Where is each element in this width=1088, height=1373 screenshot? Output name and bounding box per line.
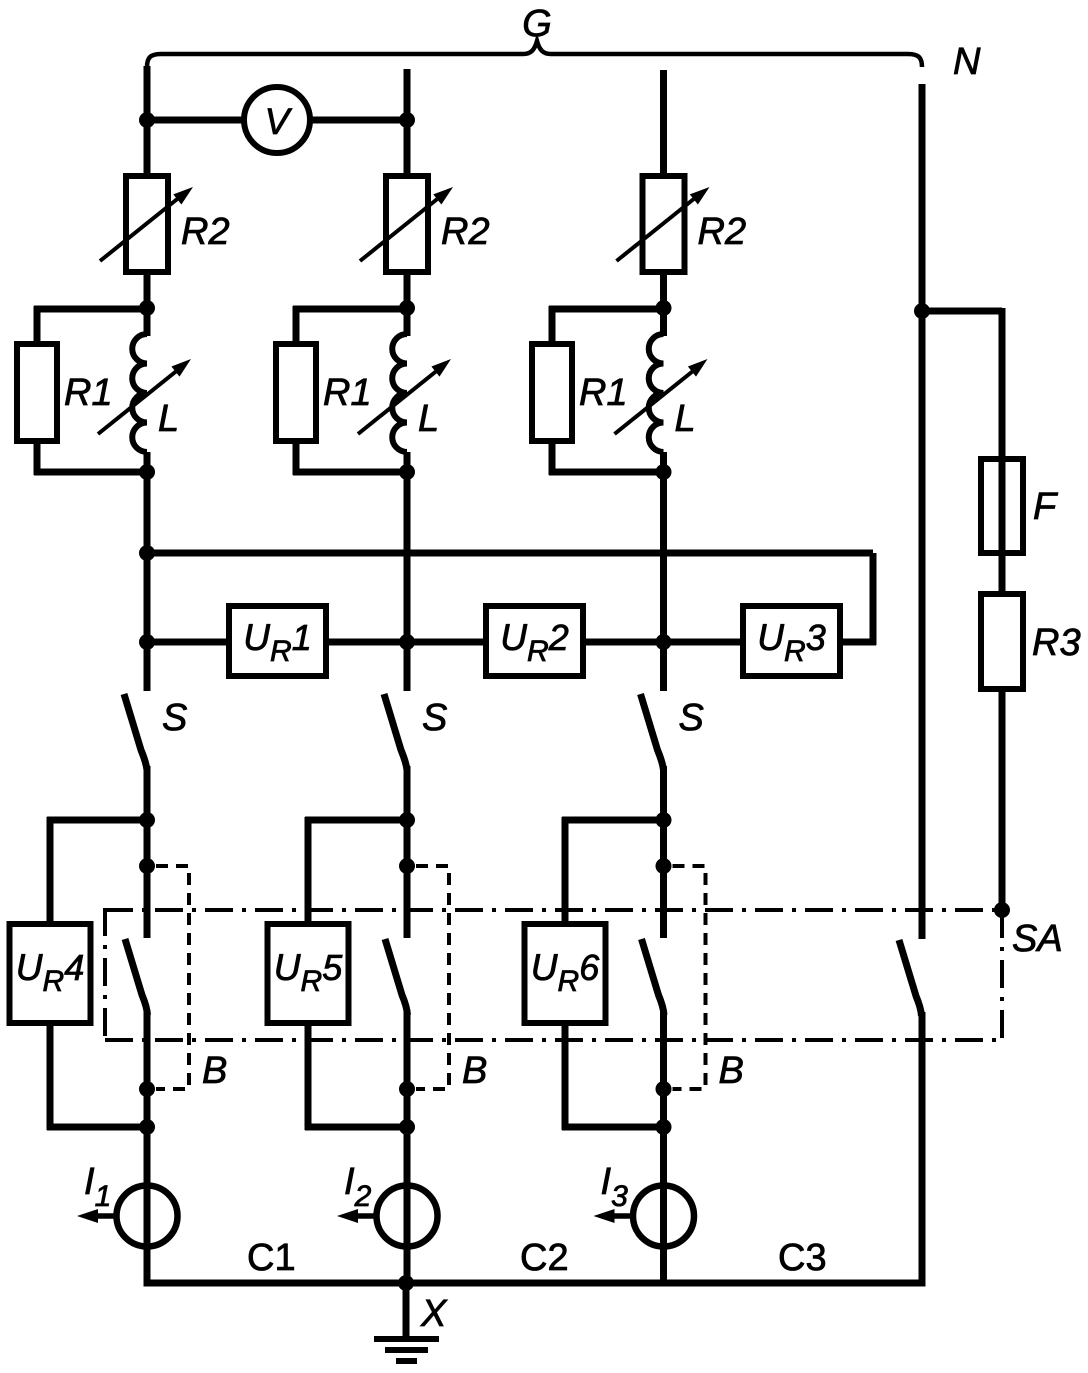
wire parallel top bar (phase B): [293, 306, 407, 313]
switch S (phase B): [384, 694, 407, 770]
wire R2 to coil (phase B): [404, 272, 411, 336]
dash-dot coupling SA right side: [1000, 910, 1004, 1042]
svg-text:F: F: [1033, 486, 1058, 528]
wire parallel bottom bar (phase A): [34, 469, 147, 476]
wire UR4 top lead (phase A): [47, 817, 54, 926]
dashed enclosure of breaker B (phase C): [673, 866, 706, 1089]
wire neutral to F: [922, 308, 1002, 596]
ground symbol at X: [374, 1283, 439, 1361]
label UR2: [500, 617, 568, 668]
wire parallel bottom bar (phase C): [549, 469, 664, 476]
resistor R3: [981, 594, 1023, 689]
node S bottom / UR4 top (phase A): [139, 812, 155, 828]
wire parallel top bar (phase C): [549, 306, 664, 313]
wire UR4 top bar (phase A): [47, 817, 147, 824]
node coil top (phase C): [656, 300, 672, 316]
wire S to B (phase C): [660, 766, 667, 938]
node R3 / SA frame: [994, 902, 1010, 918]
label N: [953, 41, 981, 83]
label L (phase C): [675, 398, 696, 440]
wire UR5 top bar (phase B): [305, 817, 407, 824]
arrow of variable resistor R2 (phase C): [617, 187, 710, 261]
svg-text:R1: R1: [64, 372, 113, 414]
wire R1 top lead (phase A): [34, 306, 41, 346]
label I1: [84, 1161, 111, 1213]
wire phase-A top: [144, 66, 151, 176]
label B (phase B): [462, 1050, 487, 1092]
node B bracket top (phase A): [139, 858, 155, 874]
wire UR5 bottom bar (phase B): [305, 1124, 407, 1131]
svg-text:V: V: [265, 101, 293, 142]
wire top bus: [147, 550, 873, 557]
voltage relay UR1: [229, 606, 326, 676]
wire R1 bottom lead (phase B): [293, 439, 300, 475]
arrow I1 (phase A): [77, 1209, 115, 1223]
wire UR5 top lead (phase B): [305, 817, 312, 926]
label S (phase A): [162, 697, 187, 739]
resistor R2 (phase A): [126, 176, 168, 272]
svg-text:UR6: UR6: [531, 947, 600, 998]
node UR6 bottom (phase C): [656, 1119, 672, 1135]
node coil top (phase A): [139, 300, 155, 316]
svg-text:S: S: [162, 697, 187, 739]
node UR5 bottom (phase B): [399, 1119, 415, 1135]
svg-text:L: L: [418, 398, 439, 440]
node phase-A / voltmeter: [139, 112, 155, 128]
wire neutral N vertical: [919, 84, 926, 939]
label X: [420, 1293, 448, 1335]
svg-text:G: G: [522, 3, 552, 45]
node phase-A / top bus: [139, 545, 155, 561]
wire coil to switch S (phase B): [404, 452, 411, 691]
node coil bottom (phase B): [399, 464, 415, 480]
dash-dot coupling SA top line: [105, 908, 1002, 912]
arrow of variable inductor L (phase B): [358, 359, 451, 434]
label L (phase B): [418, 398, 439, 440]
voltage relay UR4: [10, 924, 91, 1023]
voltage relay UR2: [486, 606, 583, 676]
label C3: [778, 1237, 827, 1279]
svg-text:SA: SA: [1012, 918, 1063, 960]
svg-text:N: N: [953, 41, 981, 83]
inductor L (phase C): [649, 334, 664, 452]
label C1: [247, 1237, 296, 1279]
dash-dot coupling SA bottom line: [105, 1038, 1002, 1042]
label R2 (phase B): [441, 211, 490, 253]
wire phase-C top: [660, 70, 667, 176]
arrow I2 (phase B): [337, 1209, 375, 1223]
svg-text:R3: R3: [1032, 622, 1081, 664]
node B bracket top (phase B): [399, 858, 415, 874]
svg-text:R1: R1: [579, 372, 628, 414]
label UR4: [16, 947, 84, 998]
wire B to current source (phase B): [404, 1011, 411, 1283]
wire UR4 bottom lead (phase A): [47, 1021, 54, 1130]
svg-text:UR3: UR3: [757, 617, 825, 668]
svg-text:UR5: UR5: [274, 947, 343, 998]
breaker contact B (phase C): [642, 939, 665, 1015]
svg-text:L: L: [158, 398, 179, 440]
label R1 (phase B): [323, 372, 372, 414]
wire UR6 top lead (phase C): [562, 817, 569, 926]
svg-text:L: L: [675, 398, 696, 440]
wire bus right connector: [870, 553, 877, 645]
voltage relay UR3: [743, 606, 840, 676]
wire UR6 bottom bar (phase C): [562, 1124, 664, 1131]
wire R1 top lead (phase B): [293, 306, 300, 346]
wire UR6 top bar (phase C): [562, 817, 664, 824]
svg-text:S: S: [679, 697, 704, 739]
voltage relay UR6: [525, 924, 606, 1023]
label S (phase B): [422, 697, 447, 739]
dashed enclosure of breaker B (phase B): [416, 866, 449, 1089]
node coil bottom (phase C): [656, 464, 672, 480]
label I3: [601, 1161, 629, 1213]
brace G (generator bus): [147, 41, 922, 67]
switch S (phase A): [124, 694, 147, 770]
switch SA contact (neutral): [899, 940, 922, 1016]
label L (phase A): [158, 398, 179, 440]
wire SA to bottom bus (neutral): [919, 1012, 926, 1283]
wire voltmeter left: [147, 117, 245, 124]
dashed enclosure of breaker B (phase A): [156, 866, 189, 1089]
wire R2 to coil (phase A): [144, 272, 151, 336]
node phase-B / voltmeter: [399, 112, 415, 128]
arrow of variable resistor R2 (phase B): [360, 187, 453, 261]
svg-text:B: B: [462, 1050, 487, 1092]
svg-text:R2: R2: [181, 211, 230, 253]
svg-text:UR2: UR2: [500, 617, 568, 668]
switch S (phase C): [641, 694, 664, 770]
node UR4 bottom (phase A): [139, 1119, 155, 1135]
wire voltmeter right: [309, 117, 407, 124]
resistor R2 (phase B): [386, 176, 428, 272]
wire B to current source (phase A): [144, 1011, 151, 1283]
wire UR row segment 3: [583, 639, 743, 646]
arrow of variable inductor L (phase A): [98, 359, 191, 434]
current transformer I1 (phase A): [117, 1186, 178, 1247]
svg-text:S: S: [422, 697, 447, 739]
wire R1 top lead (phase C): [549, 306, 556, 346]
wire R3 to SA frame: [999, 687, 1006, 910]
breaker contact B (phase A): [125, 939, 148, 1015]
wire UR row segment 1: [147, 639, 229, 646]
node S bottom / UR6 top (phase C): [656, 812, 672, 828]
arrow of variable inductor L (phase C): [615, 359, 708, 434]
node phase-A / UR row: [139, 634, 155, 650]
label UR6: [531, 947, 600, 998]
svg-text:I2: I2: [344, 1161, 372, 1213]
label R1 (phase C): [579, 372, 628, 414]
dash-dot coupling SA left side: [103, 908, 107, 1042]
wire phase-A into bus corner: [144, 1248, 151, 1283]
label R3: [1032, 622, 1081, 664]
label SA: [1012, 918, 1063, 960]
svg-text:R1: R1: [323, 372, 372, 414]
wire B to current source (phase C): [660, 1011, 667, 1283]
resistor R1 (phase C): [532, 344, 572, 441]
wire S to B (phase B): [404, 766, 411, 938]
label F: [1033, 486, 1058, 528]
svg-text:R2: R2: [698, 211, 747, 253]
wire parallel top bar (phase A): [34, 306, 147, 313]
svg-text:UR1: UR1: [243, 617, 311, 668]
svg-text:B: B: [202, 1050, 227, 1092]
label UR1: [243, 617, 311, 668]
svg-text:C3: C3: [778, 1237, 827, 1279]
label G: [522, 3, 552, 45]
svg-text:C1: C1: [247, 1237, 296, 1279]
wire S to B (phase A): [144, 766, 151, 938]
arrow of variable resistor R2 (phase A): [100, 187, 193, 261]
wire coil to switch S (phase C): [660, 452, 667, 691]
node phase-C / UR row: [656, 634, 672, 650]
svg-text:I3: I3: [601, 1161, 629, 1213]
wire R1 bottom lead (phase A): [34, 439, 41, 475]
wire UR4 bottom bar (phase A): [47, 1124, 147, 1131]
wire UR6 bottom lead (phase C): [562, 1021, 569, 1130]
node phase-B / UR row: [399, 634, 415, 650]
node B bracket bottom (phase B): [399, 1081, 415, 1097]
label I2: [344, 1161, 372, 1213]
wire R1 bottom lead (phase C): [549, 439, 556, 475]
node coil top (phase B): [399, 300, 415, 316]
resistor R1 (phase B): [276, 344, 316, 441]
label S (phase C): [679, 697, 704, 739]
inductor L (phase B): [392, 334, 407, 452]
wire R2 to coil (phase C): [660, 272, 667, 336]
current transformer I2 (phase B): [377, 1186, 438, 1247]
label R2 (phase C): [698, 211, 747, 253]
label R2 (phase A): [181, 211, 230, 253]
node B bracket bottom (phase A): [139, 1081, 155, 1097]
wire parallel bottom bar (phase B): [293, 469, 407, 476]
node neutral / F branch: [914, 303, 930, 319]
node B bracket top (phase C): [656, 858, 672, 874]
wire phase-B top: [404, 69, 411, 176]
arrow I3 (phase C): [594, 1209, 632, 1223]
resistor R1 (phase A): [17, 344, 57, 441]
svg-text:R2: R2: [441, 211, 490, 253]
node coil bottom (phase A): [139, 464, 155, 480]
svg-text:C2: C2: [520, 1237, 569, 1279]
node ground junction X: [398, 1275, 414, 1291]
node B bracket bottom (phase C): [656, 1081, 672, 1097]
wire UR row segment 2: [326, 639, 486, 646]
wire UR5 bottom lead (phase B): [305, 1021, 312, 1130]
node S bottom / UR5 top (phase B): [399, 812, 415, 828]
svg-text:UR4: UR4: [16, 947, 84, 998]
label R1 (phase A): [64, 372, 113, 414]
label C2: [520, 1237, 569, 1279]
label B (phase C): [719, 1050, 744, 1092]
wire coil to switch S (phase A): [144, 452, 151, 691]
svg-text:X: X: [420, 1293, 448, 1335]
wire bottom bus: [144, 1280, 926, 1287]
label B (phase A): [202, 1050, 227, 1092]
svg-text:B: B: [719, 1050, 744, 1092]
svg-text:I1: I1: [84, 1161, 111, 1213]
fuse F: [981, 459, 1023, 553]
breaker contact B (phase B): [385, 939, 408, 1015]
wire UR row segment 4: [840, 639, 876, 646]
resistor R2 (phase C): [643, 176, 685, 272]
inductor L (phase A): [132, 334, 147, 452]
label UR5: [274, 947, 343, 998]
current transformer I3 (phase C): [633, 1186, 694, 1247]
voltmeter V: [244, 87, 310, 153]
label UR3: [757, 617, 825, 668]
voltage relay UR5: [268, 924, 349, 1023]
